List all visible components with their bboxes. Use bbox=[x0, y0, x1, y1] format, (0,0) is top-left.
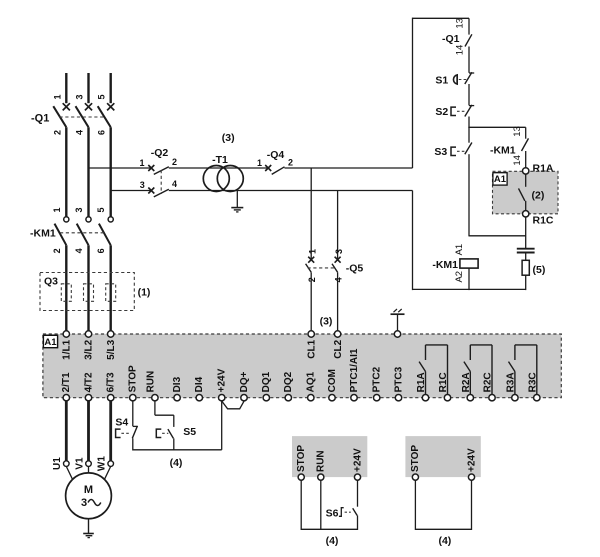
svg-text:2: 2 bbox=[172, 157, 177, 167]
svg-text:2: 2 bbox=[307, 277, 317, 282]
svg-text:14: 14 bbox=[512, 155, 523, 166]
svg-text:+24V: +24V bbox=[217, 368, 228, 392]
svg-text:1: 1 bbox=[257, 158, 262, 168]
wire Q5 pole 2 to terminal CL1 bbox=[310, 272, 312, 331]
svg-text:-Q5: -Q5 bbox=[346, 263, 364, 275]
pushbutton S5 actuator bbox=[156, 429, 161, 437]
contact S1 NC blade bbox=[465, 72, 472, 84]
svg-text:3/L2: 3/L2 bbox=[84, 339, 95, 359]
contact S1 NC tick bbox=[469, 72, 474, 74]
terminal DQ1 bbox=[263, 395, 269, 401]
circuit breaker Q1 mechanical link (dashed) bbox=[60, 116, 105, 118]
terminal 1/L1 bbox=[63, 331, 69, 337]
svg-text:4: 4 bbox=[75, 130, 85, 135]
pushbutton S4 actuator bbox=[116, 429, 121, 437]
svg-text:(4): (4) bbox=[438, 535, 451, 547]
wire V1 to motor bbox=[88, 466, 90, 473]
terminal CL1 bbox=[308, 331, 314, 337]
wire coil to rail bbox=[468, 268, 470, 290]
relay contact R2 inside block bbox=[491, 345, 493, 395]
wire RUN box1 down bbox=[320, 480, 322, 530]
circuit breaker Q1 pole blade 3 bbox=[76, 106, 89, 127]
contactor KM1 pole blade 4 bbox=[77, 224, 89, 246]
wire Q4 pole 2 to control riser (upper control wire) bbox=[285, 167, 413, 169]
thermal relay Q3 element 3 (dashed) bbox=[106, 284, 116, 302]
svg-text:(5): (5) bbox=[533, 264, 546, 276]
terminal PTC1/AI1 bbox=[351, 395, 357, 401]
terminal R2A bbox=[467, 395, 473, 401]
S6 actuator glyph bbox=[339, 508, 344, 517]
terminal DI3 bbox=[174, 395, 180, 401]
emergency stop S1 mushroom head symbol bbox=[453, 75, 457, 84]
wire node to S3 bbox=[468, 127, 470, 142]
terminal +24V box1 bbox=[354, 474, 360, 480]
svg-text:2/T1: 2/T1 bbox=[61, 372, 72, 392]
terminal DQ2 bbox=[285, 395, 291, 401]
terminal DQ+ bbox=[241, 395, 247, 401]
circuit breaker Q5 pole 1 blade bbox=[306, 264, 312, 273]
wire U1 to motor bbox=[66, 466, 72, 479]
wire control loop return riser bbox=[412, 191, 414, 291]
relay output dashed box (2) of A1 bbox=[493, 171, 559, 214]
svg-text:A2: A2 bbox=[454, 271, 465, 283]
label box A1 main bbox=[43, 335, 57, 347]
transformer T1 primary circle bbox=[203, 166, 229, 192]
wire +24V box2 down bbox=[471, 480, 473, 530]
wire S3 to coil node bbox=[468, 154, 470, 236]
terminal 6/T3 bbox=[108, 395, 114, 401]
motor terminal W1 bbox=[108, 461, 114, 467]
wire Q1 pole 4 to KM1 bbox=[87, 127, 89, 216]
svg-text:-Q4: -Q4 bbox=[267, 149, 285, 161]
pushbutton S2 actuator bbox=[451, 107, 456, 115]
svg-text:1/L1: 1/L1 bbox=[62, 339, 73, 359]
svg-text:DQ1: DQ1 bbox=[261, 371, 272, 392]
circuit breaker Q2 pole 1 x-mark bbox=[148, 165, 154, 171]
wire 2/T1 to motor (thick) bbox=[65, 401, 68, 461]
svg-text:S3: S3 bbox=[434, 146, 447, 158]
wire KM1 pole 6 to terminal 5/L3 bbox=[109, 245, 111, 331]
wire L2 phase input bbox=[87, 73, 89, 103]
soft starter block A1 (gray, dashed border) bbox=[43, 334, 561, 398]
svg-text:S2: S2 bbox=[435, 106, 448, 118]
wire R1C down bbox=[525, 217, 527, 248]
terminal DI4 bbox=[196, 395, 202, 401]
svg-text:DI3: DI3 bbox=[172, 376, 183, 392]
wire +24V box1 to S6 bbox=[357, 480, 359, 507]
wire Q5 pole 4 to terminal CL2 bbox=[337, 272, 339, 331]
svg-text:S6: S6 bbox=[326, 508, 339, 520]
circuit breaker Q4 blade bbox=[272, 167, 285, 175]
contact R1 inside box (2) bbox=[525, 174, 527, 187]
svg-text:2: 2 bbox=[52, 130, 62, 135]
svg-text:+24V: +24V bbox=[466, 448, 477, 472]
svg-text:CL1: CL1 bbox=[306, 339, 317, 358]
contact S4 NC tick bbox=[133, 425, 138, 427]
ground terminal on block top bbox=[394, 331, 400, 337]
pushbutton S3 actuator bbox=[451, 147, 456, 155]
svg-text:5: 5 bbox=[97, 94, 107, 99]
svg-text:RUN: RUN bbox=[145, 371, 156, 393]
svg-text:AQ1: AQ1 bbox=[306, 371, 317, 392]
svg-text:PTC3: PTC3 bbox=[393, 366, 404, 392]
wire KM1 pole 4 to terminal 3/L2 bbox=[87, 245, 89, 331]
svg-text:-Q2: -Q2 bbox=[151, 147, 169, 159]
svg-text:PTC2: PTC2 bbox=[372, 366, 383, 392]
terminal R3C bbox=[534, 395, 540, 401]
terminal +24V box2 bbox=[468, 474, 474, 480]
circuit breaker Q1 pole 1 terminal x-mark bbox=[63, 103, 70, 110]
svg-text:S5: S5 bbox=[183, 426, 196, 438]
svg-text:3: 3 bbox=[140, 180, 145, 190]
svg-text:S1: S1 bbox=[435, 74, 448, 86]
svg-text:-T1: -T1 bbox=[212, 154, 228, 166]
wire control bottom rail to +24V bbox=[133, 449, 222, 451]
svg-text:1: 1 bbox=[307, 249, 317, 254]
terminal CL2 bbox=[334, 331, 340, 337]
wire L1 phase input bbox=[65, 73, 67, 103]
wire upper control wire to Q5 pole 1 (CL1 branch) bbox=[310, 168, 312, 260]
wire Q1 pole 2 to KM1 bbox=[65, 127, 67, 216]
terminal R1A bbox=[422, 395, 428, 401]
circuit breaker Q5 pole 3 x-mark bbox=[335, 257, 341, 263]
svg-text:+24V: +24V bbox=[352, 448, 363, 472]
svg-text:PTC1/AI1: PTC1/AI1 bbox=[349, 348, 360, 392]
motor terminal V1 bbox=[86, 461, 92, 467]
wire STOP box2 down bbox=[414, 480, 416, 530]
terminal +24V bbox=[219, 395, 225, 401]
label box A1 small bbox=[493, 173, 507, 185]
thermal overload relay Q3 dashed box bbox=[40, 273, 134, 311]
terminal RUN box1 bbox=[318, 474, 324, 480]
wire KM1 aux to R1A bbox=[525, 151, 527, 168]
svg-text:6/T3: 6/T3 bbox=[106, 372, 117, 392]
svg-text:4: 4 bbox=[333, 277, 343, 282]
svg-text:(3): (3) bbox=[320, 316, 333, 328]
wire W1 to motor bbox=[105, 466, 111, 479]
svg-text:4: 4 bbox=[172, 179, 177, 189]
svg-text:13: 13 bbox=[512, 126, 523, 137]
svg-text:5: 5 bbox=[96, 207, 106, 212]
circuit breaker Q1 pole blade 1 bbox=[53, 106, 66, 127]
svg-text:Q3: Q3 bbox=[44, 276, 58, 288]
wire bottom rail box2 bbox=[415, 528, 471, 530]
svg-text:1: 1 bbox=[52, 207, 62, 212]
svg-text:-Q1: -Q1 bbox=[31, 112, 49, 124]
svg-text:-KM1: -KM1 bbox=[30, 228, 56, 240]
circuit breaker Q2 pole 3 blade bbox=[154, 189, 169, 197]
capacitor of RC snubber (5) bbox=[517, 248, 535, 250]
svg-text:-KM1: -KM1 bbox=[490, 144, 516, 156]
terminal R3A bbox=[512, 395, 518, 401]
terminal 2/T1 bbox=[63, 395, 69, 401]
svg-text:3: 3 bbox=[334, 249, 344, 254]
svg-text:14: 14 bbox=[454, 45, 465, 56]
contactor KM1 pole blade 6 bbox=[99, 224, 111, 246]
svg-text:RUN: RUN bbox=[316, 450, 327, 472]
contact S5 NO blade bbox=[168, 429, 174, 438]
S6 actuator dashed link bbox=[345, 511, 351, 513]
svg-text:COM: COM bbox=[327, 369, 338, 392]
wire Q2 pole 4 lower control wire bbox=[169, 190, 413, 192]
svg-text:DQ2: DQ2 bbox=[283, 371, 294, 392]
circuit breaker Q5 pole 3 blade bbox=[332, 264, 338, 273]
wire S6 to rail box1 bbox=[357, 516, 359, 531]
auxiliary contact KM1 13-14 blade bbox=[522, 138, 529, 151]
terminal 4/T2 bbox=[85, 395, 91, 401]
svg-text:DI4: DI4 bbox=[194, 376, 205, 392]
S3 actuator dashed link bbox=[457, 150, 467, 152]
svg-text:STOP: STOP bbox=[128, 365, 139, 392]
contactor coil KM1 bbox=[460, 259, 478, 268]
contact S4 NC blade bbox=[132, 426, 137, 438]
svg-text:(1): (1) bbox=[138, 287, 151, 299]
wire Q2 pole 2 to T1 and Q4 (upper control wire) bbox=[169, 167, 268, 169]
svg-text:M: M bbox=[84, 484, 93, 496]
circuit breaker Q1 pole 3 terminal x-mark bbox=[85, 103, 92, 110]
svg-text:U1: U1 bbox=[52, 457, 63, 470]
terminal AQ1 bbox=[308, 395, 314, 401]
wire STOP down to S4 bbox=[132, 401, 134, 426]
wire 4/T2 to motor (thick) bbox=[87, 401, 90, 461]
motor terminal U1 bbox=[64, 461, 70, 467]
contact S2 NC tick bbox=[469, 105, 474, 107]
wire bottom rail box1 bbox=[301, 528, 357, 530]
contact S3 NO blade bbox=[465, 143, 472, 155]
motor M 3-phase bbox=[66, 473, 112, 519]
svg-text:-KM1: -KM1 bbox=[432, 259, 458, 271]
svg-text:6: 6 bbox=[97, 130, 107, 135]
terminal R1C bbox=[444, 395, 450, 401]
terminal RUN bbox=[152, 395, 158, 401]
S4 actuator dashed link bbox=[121, 432, 130, 434]
terminal R1A bbox=[523, 168, 529, 174]
wire tap L3 to Q2 pole 3 bbox=[111, 190, 152, 192]
svg-text:V1: V1 bbox=[74, 457, 85, 470]
relay contact R1 inside block bbox=[447, 345, 449, 395]
terminal PTC3 bbox=[395, 395, 401, 401]
wire tap L2 to Q2 pole 1 bbox=[89, 167, 152, 169]
contactor KM1 pole 3 terminal circle bbox=[86, 217, 91, 222]
terminal R1C bbox=[523, 211, 529, 217]
svg-text:4/T2: 4/T2 bbox=[83, 372, 94, 392]
option box 1 (gray) bbox=[292, 436, 367, 477]
circuit breaker Q4 x-mark bbox=[265, 165, 271, 171]
svg-text:S4: S4 bbox=[115, 416, 128, 428]
svg-text:6: 6 bbox=[96, 248, 106, 253]
option box 2 (gray) bbox=[405, 436, 480, 477]
wire S2 to branch node bbox=[468, 117, 470, 128]
circuit breaker Q2 pole 1 blade bbox=[154, 167, 169, 175]
svg-text:A1: A1 bbox=[44, 337, 57, 348]
resistor of RC snubber (5) bbox=[522, 260, 529, 275]
wire upper control riser bbox=[412, 18, 414, 168]
circuit breaker Q2 mechanical link (dashed) bbox=[160, 170, 162, 194]
thermal relay Q3 element 2 (dashed) bbox=[84, 284, 94, 302]
terminal R2C bbox=[489, 395, 495, 401]
wire KM1 pole 2 to terminal 1/L1 bbox=[65, 245, 67, 331]
svg-text:3: 3 bbox=[74, 207, 84, 212]
contact S2 NC blade bbox=[465, 105, 472, 117]
wire top to Q1 aux contact bbox=[468, 18, 470, 34]
contactor KM1 pole blade 2 bbox=[55, 224, 67, 246]
wire link node to R1C branch bbox=[469, 235, 526, 237]
contact S6 NO blade bbox=[353, 508, 358, 515]
circuit breaker Q1 pole 5 terminal x-mark bbox=[107, 103, 114, 110]
svg-text:(3): (3) bbox=[222, 132, 235, 144]
wire S1 to S2 bbox=[468, 84, 470, 105]
svg-text:-Q1: -Q1 bbox=[442, 33, 460, 45]
jumper +24V to DQ+ bbox=[222, 401, 244, 409]
wire 6/T3 to motor (thick) bbox=[109, 401, 112, 461]
wire capacitor to resistor bbox=[525, 253, 527, 261]
svg-text:2: 2 bbox=[52, 248, 62, 253]
svg-text:13: 13 bbox=[454, 18, 465, 29]
svg-text:(4): (4) bbox=[170, 457, 183, 469]
transformer T1 secondary circle bbox=[217, 166, 243, 192]
wire L3 phase input bbox=[109, 73, 111, 103]
terminal STOP box1 bbox=[298, 474, 304, 480]
svg-text:DQ+: DQ+ bbox=[239, 371, 250, 392]
svg-text:R1C: R1C bbox=[533, 214, 554, 226]
circuit breaker Q5 pole 1 x-mark bbox=[308, 257, 314, 263]
circuit breaker Q1 pole blade 5 bbox=[98, 106, 111, 127]
auxiliary contact Q1 13-14 blade bbox=[465, 34, 472, 46]
svg-text:STOP: STOP bbox=[410, 445, 421, 472]
wire KM1 aux upper bbox=[525, 127, 527, 138]
motor ground bbox=[88, 519, 90, 534]
wire Q1 aux to S1 bbox=[468, 47, 470, 73]
thermal relay Q3 element 1 (dashed) bbox=[61, 284, 71, 302]
wire lower control wire to Q5 pole 3 (CL2 branch) bbox=[337, 191, 339, 260]
svg-text:CL2: CL2 bbox=[333, 339, 344, 358]
svg-text:3: 3 bbox=[81, 497, 87, 509]
wire Q1 pole 6 to KM1 bbox=[109, 127, 111, 216]
svg-text:1: 1 bbox=[52, 94, 62, 99]
terminal PTC2 bbox=[374, 395, 380, 401]
svg-text:(4): (4) bbox=[326, 535, 339, 547]
wire S5 to bottom rail bbox=[173, 438, 175, 450]
contactor KM1 mechanical link (dashed) bbox=[60, 232, 105, 234]
svg-text:(2): (2) bbox=[532, 189, 545, 201]
svg-text:3: 3 bbox=[75, 94, 85, 99]
terminal 5/L3 bbox=[108, 331, 114, 337]
svg-text:A1: A1 bbox=[494, 174, 507, 185]
svg-text:STOP: STOP bbox=[296, 445, 307, 472]
terminal STOP bbox=[130, 395, 136, 401]
wire resistor to rail bbox=[525, 275, 527, 290]
svg-text:R1A: R1A bbox=[533, 162, 554, 174]
contactor KM1 pole 1 terminal circle bbox=[64, 217, 69, 222]
wire RUN down and over to S5 bbox=[154, 401, 156, 415]
S1 actuator dashed link bbox=[459, 79, 467, 81]
wire control loop top bbox=[413, 17, 470, 19]
transformer secondary ground bbox=[236, 191, 238, 208]
terminal STOP box2 bbox=[412, 474, 418, 480]
S2 actuator dashed link bbox=[457, 110, 467, 112]
wire STOP box1 down bbox=[300, 480, 302, 530]
S5 actuator dashed link bbox=[162, 432, 168, 434]
wire branch node to KM1 aux contact bbox=[468, 126, 525, 128]
contactor KM1 pole 5 terminal circle bbox=[108, 217, 113, 222]
svg-text:A1: A1 bbox=[454, 244, 465, 256]
terminal COM bbox=[329, 395, 335, 401]
relay contact R3 inside block bbox=[536, 345, 538, 395]
svg-text:2: 2 bbox=[288, 158, 293, 168]
svg-text:W1: W1 bbox=[97, 456, 108, 471]
svg-text:5/L3: 5/L3 bbox=[106, 339, 117, 359]
svg-text:4: 4 bbox=[74, 248, 84, 253]
wire S4 to bottom rail bbox=[132, 438, 134, 450]
circuit breaker Q5 mechanical link (dashed) bbox=[308, 267, 335, 269]
circuit breaker Q2 pole 3 x-mark bbox=[148, 188, 154, 194]
wire control loop bottom rail bbox=[413, 288, 526, 290]
terminal 3/L2 bbox=[85, 331, 91, 337]
svg-text:1: 1 bbox=[139, 158, 144, 168]
